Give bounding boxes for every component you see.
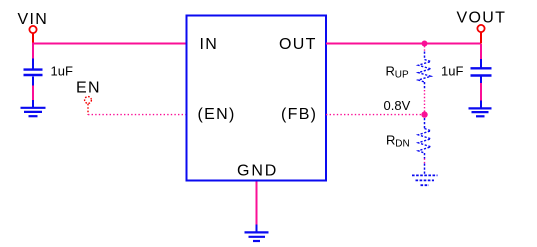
- pin (FB): [281, 106, 317, 123]
- wire GND pin down: [256, 182, 258, 225]
- ground G4 (dashed): [412, 164, 438, 186]
- wire RUP top dotted stub: [424, 46, 426, 52]
- junction node OUT/RUP: [422, 41, 428, 47]
- svg-text:1uF: 1uF: [51, 64, 73, 79]
- pin GND: [237, 163, 278, 180]
- wire VOUT down to C2: [480, 44, 482, 59]
- svg-text:GND: GND: [237, 163, 278, 180]
- ground G1: [21, 100, 46, 116]
- wire EN dotted to (EN) pin: [88, 114, 187, 116]
- ground G2: [469, 101, 492, 117]
- wire C1 to ground: [32, 86, 34, 101]
- svg-text:VOUT: VOUT: [457, 10, 507, 27]
- node VIN label: [18, 11, 49, 28]
- svg-text:(EN): (EN): [198, 106, 236, 123]
- svg-text:IN: IN: [200, 36, 219, 53]
- svg-text:OUT: OUT: [279, 36, 317, 53]
- svg-text:1uF: 1uF: [441, 64, 463, 79]
- terminal VOUT: [477, 25, 484, 44]
- pin OUT: [279, 36, 317, 53]
- svg-text:0.8V: 0.8V: [384, 98, 411, 113]
- svg-text:EN: EN: [76, 80, 101, 97]
- wire VIN rail to IN: [32, 43, 187, 45]
- pin IN: [200, 36, 219, 53]
- pin (EN): [198, 106, 236, 123]
- resistor RDN: [418, 118, 431, 159]
- svg-text:R: R: [386, 132, 395, 147]
- terminal VIN: [29, 26, 36, 44]
- capacitor C1 1uF: [24, 59, 43, 86]
- wire FB dotted from pin: [326, 114, 425, 116]
- label RDN: [386, 132, 410, 149]
- label RUP: [386, 63, 410, 80]
- terminal EN (dashed): [85, 97, 92, 115]
- ground G3: [245, 225, 269, 242]
- junction node FB: [421, 111, 427, 117]
- resistor RUP: [418, 52, 431, 91]
- label FB voltage 0.8V: [384, 98, 411, 113]
- op-amp U1 regulator body: [187, 16, 327, 181]
- wire RDN dotted to ground: [424, 159, 426, 164]
- node VOUT label: [457, 10, 507, 27]
- wire OUT rail to VOUT: [326, 43, 481, 45]
- wire RUP bottom dotted to FB node: [424, 90, 426, 115]
- label C2 value 1uF: [441, 64, 463, 79]
- wire C2 to ground: [480, 83, 482, 101]
- svg-text:DN: DN: [395, 139, 409, 150]
- label C1 value 1uF: [51, 64, 73, 79]
- node EN label: [76, 80, 101, 97]
- capacitor C2 1uF: [471, 59, 492, 83]
- svg-text:R: R: [386, 63, 395, 78]
- wire VIN down to C1: [32, 44, 34, 59]
- svg-text:(FB): (FB): [281, 106, 317, 123]
- svg-text:UP: UP: [395, 70, 409, 81]
